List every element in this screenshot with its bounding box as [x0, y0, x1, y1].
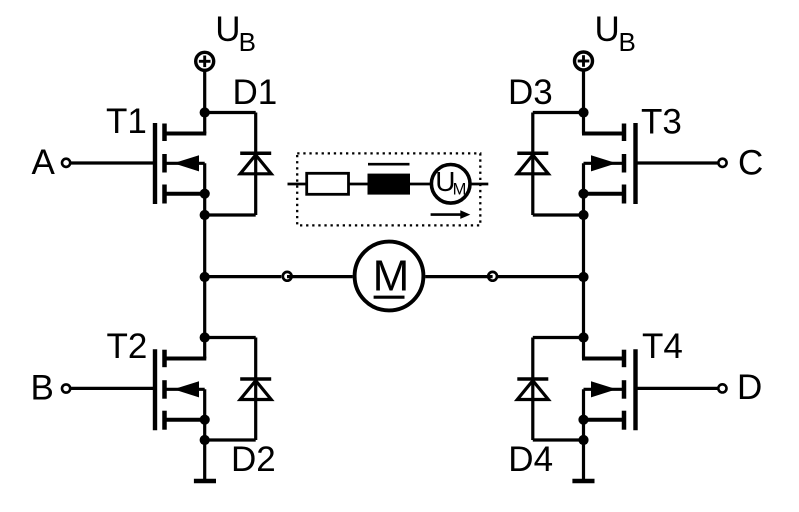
svg-text:U: U [215, 10, 240, 49]
svg-text:D: D [737, 368, 762, 407]
svg-text:B: B [619, 27, 636, 57]
svg-text:T2: T2 [107, 327, 148, 366]
svg-text:D1: D1 [233, 73, 278, 112]
svg-text:M: M [453, 181, 467, 199]
svg-text:B: B [31, 368, 54, 407]
svg-text:C: C [738, 144, 763, 183]
svg-text:T4: T4 [642, 327, 683, 366]
svg-text:D3: D3 [508, 73, 553, 112]
svg-text:U: U [595, 10, 620, 49]
svg-text:T1: T1 [106, 102, 147, 141]
svg-text:B: B [239, 27, 256, 57]
svg-text:D4: D4 [508, 440, 553, 479]
svg-text:M: M [373, 252, 410, 301]
svg-text:A: A [32, 143, 56, 182]
svg-text:D2: D2 [231, 440, 276, 479]
svg-text:T3: T3 [641, 102, 682, 141]
